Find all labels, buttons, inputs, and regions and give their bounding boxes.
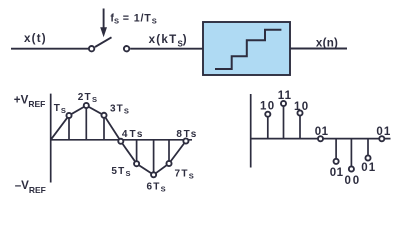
sample node 2Ts (84, 103, 89, 108)
switch S1 left contact (89, 46, 94, 51)
code node 6 (349, 166, 354, 171)
code node 7 (365, 155, 370, 160)
code node 5 (334, 159, 339, 164)
code node 3 (297, 110, 302, 115)
svg-text:x(t): x(t) (24, 32, 47, 45)
svg-text:10: 10 (260, 101, 276, 113)
wire W3 output (290, 48, 347, 50)
svg-text:01: 01 (315, 126, 329, 138)
sample node 7Ts (166, 161, 171, 166)
wire W1 input (11, 48, 88, 50)
svg-text:11: 11 (278, 90, 293, 102)
quantizer block U1 (203, 22, 290, 75)
sine polyline (51, 106, 186, 175)
sample node 8Ts (183, 138, 188, 143)
left plot horizontal axis (51, 139, 192, 141)
svg-text:00: 00 (345, 175, 361, 187)
sample node 6Ts (151, 172, 156, 177)
svg-text:8Ts: 8Ts (176, 129, 198, 140)
svg-text:x(n): x(n) (316, 36, 338, 49)
svg-text:01: 01 (376, 126, 391, 138)
switch S1 arm (95, 37, 112, 47)
switch S1 right contact (124, 46, 129, 51)
sample node 4Ts (118, 139, 123, 144)
svg-text:01: 01 (361, 162, 376, 174)
digital stems (268, 104, 368, 170)
sample stems left plot (69, 106, 169, 175)
sample node Ts (66, 113, 71, 118)
right plot horizontal axis (251, 138, 391, 140)
code node 2 (281, 101, 286, 106)
sample node 3Ts (101, 113, 106, 118)
svg-text:4Ts: 4Ts (122, 129, 144, 140)
svg-text:10: 10 (294, 101, 309, 113)
clock arrow (100, 9, 107, 38)
right plot vertical axis (250, 94, 252, 168)
code node 8 (379, 136, 384, 141)
wire W2 sampled (130, 48, 203, 50)
sample node 5Ts (134, 161, 139, 166)
left plot vertical axis (50, 94, 52, 183)
code node 1 (265, 112, 270, 117)
svg-text:01: 01 (330, 167, 344, 179)
code node 4 (318, 136, 323, 141)
quantizer staircase symbol (215, 30, 281, 69)
